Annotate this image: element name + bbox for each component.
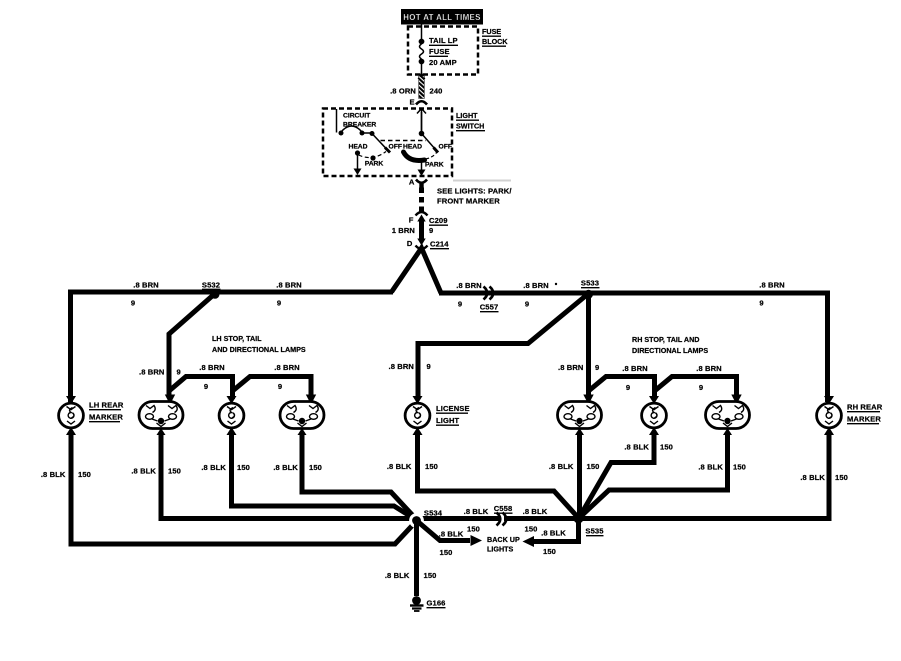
label .8 BRN 9 (far right) <box>759 281 785 308</box>
svg-text:C214: C214 <box>430 240 449 249</box>
lamp RH tail F (dual) <box>706 395 750 436</box>
svg-text:150: 150 <box>587 462 600 471</box>
wire S533 to license light <box>418 294 589 399</box>
svg-text:150: 150 <box>424 571 437 580</box>
svg-text:9: 9 <box>458 300 462 309</box>
svg-text:LIGHTS: LIGHTS <box>487 545 514 554</box>
label FUSE BLOCK <box>482 27 508 46</box>
lamp license light <box>405 396 430 435</box>
svg-text:.8 BRN: .8 BRN <box>133 281 159 290</box>
svg-text:G166: G166 <box>427 599 446 608</box>
svg-text:.8 BLK: .8 BLK <box>624 443 649 452</box>
svg-text:S535: S535 <box>585 527 604 536</box>
svg-text:.8 BRN: .8 BRN <box>523 281 549 290</box>
label .8 BRN 9 (lamp E) <box>622 364 648 392</box>
svg-text:.8 BLK: .8 BLK <box>464 507 489 516</box>
svg-text:9: 9 <box>429 226 433 235</box>
label RH REAR MARKER <box>847 403 883 424</box>
svg-text:.8 BLK: .8 BLK <box>131 467 156 476</box>
wire S534 to S535 <box>417 516 579 521</box>
svg-text:.8 BLK: .8 BLK <box>541 529 566 538</box>
svg-text:9: 9 <box>278 382 282 391</box>
left HEAD contact and arrow <box>348 144 367 176</box>
label .8 BRN 9 (right of S532) <box>276 281 302 308</box>
svg-text:HEAD: HEAD <box>403 144 422 151</box>
svg-text:9: 9 <box>131 299 135 308</box>
svg-text:.8 BRN: .8 BRN <box>389 362 415 371</box>
LH lamps sub-bus <box>169 377 311 400</box>
svg-text:150: 150 <box>237 463 250 472</box>
ground G166 <box>410 596 446 611</box>
svg-text:.8 BLK: .8 BLK <box>439 530 464 539</box>
fuse block dashed box <box>408 27 478 75</box>
label .8 BRN 9 (lamp B) <box>199 363 225 391</box>
svg-text:FRONT MARKER: FRONT MARKER <box>437 197 500 206</box>
svg-text:150: 150 <box>467 525 480 534</box>
label .8 BLK 150 (ground wire) <box>385 571 437 580</box>
svg-text:9: 9 <box>525 300 529 309</box>
dashed wire below A <box>419 188 424 213</box>
wire S533 to RH lamps <box>586 294 591 399</box>
svg-text:.8 BRN: .8 BRN <box>622 364 648 373</box>
label .8 BLK 150 (LH marker) <box>41 470 91 479</box>
label .8 BRN 9 (license) <box>389 362 431 371</box>
ground wire lamp A to S534 <box>161 432 412 519</box>
label .8 BLK 150 (lamp A) <box>131 467 181 476</box>
svg-text:PARK: PARK <box>425 162 444 169</box>
label LH REAR MARKER <box>89 401 124 422</box>
lamp RH tail E (single) <box>642 396 667 435</box>
internal dashed line <box>381 140 427 142</box>
svg-text:.8 BLK: .8 BLK <box>698 463 723 472</box>
svg-text:.8 BLK: .8 BLK <box>800 473 825 482</box>
HOT AT ALL TIMES banner <box>401 9 483 25</box>
svg-text:.8 BLK: .8 BLK <box>201 463 226 472</box>
dashed travel arc right <box>426 153 437 160</box>
svg-text:C558: C558 <box>494 504 513 513</box>
svg-text:FUSE: FUSE <box>429 47 450 56</box>
svg-text:FUSE: FUSE <box>482 27 501 36</box>
main bus right segment <box>439 293 828 402</box>
svg-text:.8 ORN: .8 ORN <box>390 87 416 96</box>
wire back-up lights to S535 <box>534 519 579 542</box>
svg-text:AND DIRECTIONAL LAMPS: AND DIRECTIONAL LAMPS <box>212 345 306 354</box>
lamp LH tail B (single) <box>219 396 244 435</box>
svg-text:RH STOP, TAIL AND: RH STOP, TAIL AND <box>632 335 700 344</box>
main bus left segment <box>71 292 394 402</box>
label .8 BLK 150 (left back-up wire) <box>439 530 464 558</box>
svg-text:SWITCH: SWITCH <box>456 122 484 131</box>
connector C557 <box>480 287 499 312</box>
svg-text:LH STOP, TAIL: LH STOP, TAIL <box>212 334 262 343</box>
right switch blade <box>422 134 439 153</box>
svg-text:HEAD: HEAD <box>348 144 367 151</box>
svg-text:150: 150 <box>425 462 438 471</box>
label .8 BLK 150 (lamp D) <box>549 462 600 471</box>
hatched wire .8 ORN <box>390 76 442 99</box>
svg-text:1 BRN: 1 BRN <box>392 226 415 235</box>
svg-text:.8 BLK: .8 BLK <box>385 571 410 580</box>
arrow to back-up lights (left) <box>471 535 483 546</box>
svg-text:9: 9 <box>177 368 181 377</box>
svg-text:9: 9 <box>204 382 208 391</box>
ground wire RH marker to S535 <box>579 432 830 519</box>
lamp RH rear marker <box>817 396 842 435</box>
svg-text:.8 BLK: .8 BLK <box>387 462 412 471</box>
wire from banner into fuse box <box>421 25 423 41</box>
wire Y split <box>392 248 442 293</box>
svg-text:C209: C209 <box>429 216 448 225</box>
svg-text:150: 150 <box>309 463 322 472</box>
svg-text:E: E <box>410 98 415 107</box>
ground wire lamp D to S535 <box>577 432 582 519</box>
park wiper thick arc <box>404 152 425 160</box>
ground wire lamp E to S535 <box>580 432 655 517</box>
svg-text:.8 BLK: .8 BLK <box>41 470 66 479</box>
junction S535 <box>574 514 605 536</box>
svg-text:C557: C557 <box>480 303 499 312</box>
right output arrow to A <box>418 161 426 176</box>
label BACK UP LIGHTS <box>487 535 520 554</box>
svg-text:9: 9 <box>626 383 630 392</box>
wire F to D 1 BRN <box>392 221 434 239</box>
svg-text:HOT AT ALL TIMES: HOT AT ALL TIMES <box>403 13 481 22</box>
svg-text:9: 9 <box>699 383 703 392</box>
svg-text:240: 240 <box>430 87 443 96</box>
connector C558 <box>494 504 513 526</box>
svg-text:.8 BRN: .8 BRN <box>274 363 300 372</box>
wire S532 to LH lamps <box>169 294 215 399</box>
connector arrow into fuse block bottom <box>418 72 426 80</box>
svg-text:9: 9 <box>595 363 599 372</box>
label .8 BLK 150 (license) <box>387 462 438 471</box>
ground wire S534 to G166 <box>414 521 419 597</box>
svg-text:9: 9 <box>759 299 763 308</box>
label .8 BLK 150 (lamp C) <box>273 463 322 472</box>
ground wire lamp F to S535 <box>579 432 728 518</box>
note SEE LIGHTS: PARK/ FRONT MARKER <box>437 187 512 206</box>
label LIGHT SWITCH <box>456 111 485 131</box>
svg-text:9: 9 <box>427 362 431 371</box>
svg-text:SEE LIGHTS: PARK/: SEE LIGHTS: PARK/ <box>437 187 512 196</box>
label .8 BRN 9 (left of C557) <box>456 281 482 309</box>
svg-text:.8 BLK: .8 BLK <box>523 507 548 516</box>
svg-text:D: D <box>407 239 413 248</box>
label LICENSE LIGHT <box>436 404 470 425</box>
label .8 BLK 150 (lamp B) <box>201 463 250 472</box>
svg-text:MARKER: MARKER <box>847 415 881 424</box>
svg-text:20 AMP: 20 AMP <box>429 58 457 67</box>
RH lamps sub-bus <box>589 377 737 400</box>
label LH STOP, TAIL AND DIRECTIONAL LAMPS <box>212 334 306 354</box>
wire S534 to back-up lights <box>417 521 471 541</box>
lamp LH tail A (dual) <box>139 395 183 436</box>
label .8 BRN 9 (lamp F) <box>696 364 722 392</box>
svg-text:.8 BLK: .8 BLK <box>273 463 298 472</box>
svg-text:.8 BRN: .8 BRN <box>276 281 302 290</box>
label .8 BLK 150 (RH marker) <box>800 473 848 482</box>
label .8 BLK 150 (right back-up wire) <box>541 529 566 557</box>
lamp LH rear marker <box>59 396 84 435</box>
svg-text:OFF: OFF <box>389 144 402 151</box>
svg-text:MARKER: MARKER <box>89 413 123 422</box>
junction S533 <box>581 279 600 299</box>
svg-text:LIGHT: LIGHT <box>456 111 478 120</box>
svg-text:TAIL LP: TAIL LP <box>429 36 458 45</box>
svg-text:S532: S532 <box>202 281 220 290</box>
svg-text:DIRECTIONAL LAMPS: DIRECTIONAL LAMPS <box>632 346 708 355</box>
svg-text:150: 150 <box>168 467 181 476</box>
circuit breaker CB <box>337 109 377 136</box>
junction S534 <box>409 509 443 528</box>
svg-text:.8 BRN: .8 BRN <box>139 368 165 377</box>
lamp RH tail D (dual) <box>558 395 602 436</box>
svg-text:9: 9 <box>277 299 281 308</box>
svg-text:S534: S534 <box>424 509 443 518</box>
faint watermark <box>453 180 511 182</box>
svg-text:LICENSE: LICENSE <box>436 404 470 413</box>
label .8 BRN 9 (LH feeder) <box>139 368 181 377</box>
label .8 BLK 150 (lamp F) <box>698 463 746 472</box>
svg-text:.8 BRN: .8 BRN <box>759 281 785 290</box>
svg-text:BLOCK: BLOCK <box>482 37 508 46</box>
connector C209 <box>416 212 449 225</box>
right switch wire and pivot <box>419 112 425 136</box>
svg-text:150: 150 <box>835 473 848 482</box>
arrow from back-up lights (right) <box>523 536 535 547</box>
svg-text:RH REAR: RH REAR <box>847 403 883 412</box>
svg-text:.8 BRN: .8 BRN <box>199 363 225 372</box>
ground wire lamp B to S534 <box>232 432 417 520</box>
ground wire lamp C to S534 <box>302 432 417 520</box>
svg-text:LH REAR: LH REAR <box>89 401 124 410</box>
connector A socket <box>416 180 427 188</box>
label 150 150 (C558 wire) <box>467 525 537 534</box>
svg-text:.8 BRN: .8 BRN <box>558 363 584 372</box>
svg-text:150: 150 <box>660 443 673 452</box>
stray mark <box>555 283 557 285</box>
right HEAD and OFF labels <box>403 144 452 151</box>
junction S532 <box>202 281 221 299</box>
svg-text:A: A <box>409 178 415 187</box>
svg-text:.8 BRN: .8 BRN <box>456 281 482 290</box>
label .8 BLK 150 (lamp E) <box>624 443 673 452</box>
connector C214 <box>416 239 450 250</box>
label .8 BRN 9 (RH feeder) <box>558 363 599 372</box>
svg-text:OFF: OFF <box>439 144 452 151</box>
lamp LH tail C (dual) <box>280 395 324 436</box>
ground wire LH marker to S534 <box>71 432 417 544</box>
svg-text:150: 150 <box>440 548 453 557</box>
left switch blade <box>372 134 390 153</box>
svg-text:150: 150 <box>78 470 91 479</box>
svg-text:BACK UP: BACK UP <box>487 535 520 544</box>
left PARK contact <box>365 155 384 167</box>
svg-text:LIGHT: LIGHT <box>436 416 460 425</box>
svg-text:150: 150 <box>543 547 556 556</box>
label RH STOP, TAIL AND DIRECTIONAL LAMPS <box>632 335 708 355</box>
svg-text:CIRCUIT: CIRCUIT <box>343 113 371 120</box>
svg-text:S533: S533 <box>581 279 599 288</box>
svg-text:PARK: PARK <box>365 161 384 168</box>
fuse TAIL LP FUSE 20 AMP <box>419 36 458 75</box>
connector E (socket and arrow) <box>416 101 427 133</box>
svg-text:150: 150 <box>733 463 746 472</box>
dashed travel arc left <box>359 152 387 158</box>
svg-text:F: F <box>409 216 414 225</box>
svg-text:150: 150 <box>525 525 538 534</box>
svg-text:.8 BLK: .8 BLK <box>549 462 574 471</box>
light switch dashed box <box>323 109 452 177</box>
ground wire license to S535 <box>418 432 579 518</box>
label .8 BRN 9 (right of C557) <box>523 281 549 309</box>
label .8 BRN 9 (left of S532) <box>131 281 159 308</box>
label .8 BRN 9 (lamp C) <box>274 363 300 391</box>
svg-text:.8 BRN: .8 BRN <box>696 364 722 373</box>
